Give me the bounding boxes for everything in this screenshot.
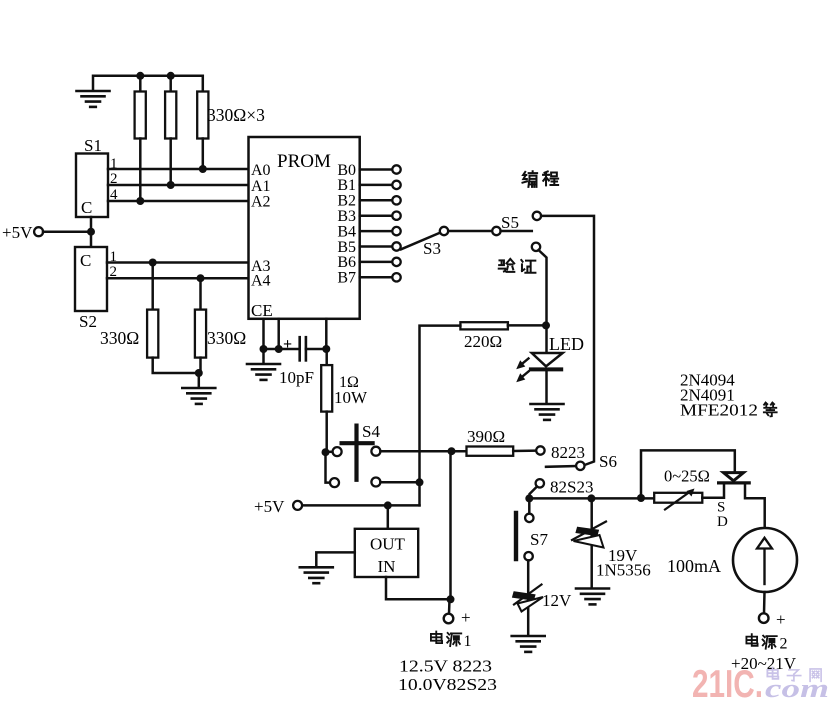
ground below 19V zener [576, 589, 609, 605]
svg-text:B7: B7 [337, 270, 356, 287]
terminal S7 top [525, 514, 533, 522]
junction 220 branch / S4 wire [416, 478, 424, 486]
wire R6 down to S4 [325, 412, 328, 453]
resistor R7 220 ohm [460, 322, 508, 329]
svg-text:com: com [765, 674, 829, 703]
svg-text:PROM: PROM [277, 151, 331, 172]
wire B1 stub [360, 184, 393, 187]
ground of regulator [300, 567, 333, 583]
wire S3 contact to S5 common [448, 230, 492, 233]
junction +5V node [87, 228, 95, 236]
label 19V [608, 546, 638, 565]
LED emission arrows [516, 359, 528, 383]
junction S4 input node [322, 448, 330, 456]
junction A4/R5 [197, 274, 205, 282]
terminal S4 bottom-left [330, 478, 339, 487]
label 330 ohm right [207, 328, 246, 348]
wire clamp bus [530, 497, 655, 500]
svg-text:A4: A4 [251, 273, 271, 290]
svg-text:LED: LED [549, 334, 584, 354]
svg-text:S4: S4 [362, 422, 380, 441]
resistor R5 330 ohm [195, 310, 206, 358]
transistor Q1 channel bar [719, 481, 750, 484]
terminal B3 [392, 212, 400, 220]
wire Q1 drain to meter [745, 483, 765, 529]
label S6 [599, 452, 617, 471]
terminal B5 [392, 242, 400, 250]
svg-text:+5V: +5V [2, 223, 33, 242]
ground below 12V zener [512, 636, 545, 652]
label 220 ohm [464, 332, 502, 351]
watermark com [765, 674, 829, 703]
junction S7 node [525, 494, 533, 502]
wire Q1 source stub [702, 483, 724, 498]
junction R3/A0 [199, 165, 207, 173]
wire top bus to pull-up resistors [93, 76, 203, 92]
pin label A0 [251, 162, 271, 179]
label yan-zheng (verify) [499, 259, 536, 273]
zener D3 12V [513, 585, 544, 612]
label C of S1 [81, 198, 92, 217]
wire 390 ohm to 8223 terminal [513, 449, 536, 452]
terminal B1 [392, 181, 400, 189]
label dian-yuan-2 (power supply 2) [746, 634, 787, 652]
wire R3 down to A0 [202, 139, 205, 170]
svg-text:IN: IN [378, 557, 396, 576]
label 1 ohm [339, 374, 359, 391]
label + of capacitor [283, 336, 292, 353]
svg-text:A0: A0 [251, 162, 271, 179]
wire S1 pin1 to A0 [108, 168, 249, 171]
pin label B7 [337, 270, 356, 287]
wire S4 bottom-right to 220 ohm branch [380, 481, 419, 484]
terminal S5 program contact [533, 212, 541, 220]
wire S4 input branch down to bottom-left contact [326, 452, 331, 482]
pin label B0 [337, 162, 356, 179]
wire S1 common to S2 common [90, 217, 93, 247]
svg-text:12.5V 8223: 12.5V 8223 [399, 657, 492, 676]
junction 390 ohm node [448, 447, 456, 455]
terminal B4 [392, 227, 400, 235]
pin label A3 [251, 258, 271, 275]
label bian-cheng (program) [522, 171, 558, 187]
svg-text:+5V: +5V [254, 497, 285, 516]
resistor R3 330 ohm (to A0) [197, 92, 208, 139]
pin label CE [251, 301, 273, 320]
label D of FET [717, 514, 728, 530]
terminal S6 common [576, 462, 584, 470]
wire R5 bottom to ground node [199, 358, 202, 373]
junction R4/R5 ground node [195, 369, 203, 377]
rheostat RP1 0~25 ohm body [654, 493, 702, 503]
resistor R2 330 ohm (to A1) [165, 92, 176, 139]
label 10pF [279, 368, 314, 387]
label 2N4091 [680, 386, 735, 405]
svg-text:330Ω: 330Ω [207, 328, 246, 348]
label 330 ohm left [100, 328, 139, 348]
label S1 [84, 136, 102, 155]
svg-text:82S23: 82S23 [550, 478, 593, 497]
pin label A2 [251, 194, 271, 211]
resistor R4 330 ohm [147, 310, 158, 358]
svg-text:D: D [717, 514, 728, 530]
terminal S4 top-right [371, 447, 380, 456]
label 10W [334, 388, 368, 407]
svg-text:220Ω: 220Ω [464, 332, 502, 351]
label S2 [79, 312, 97, 331]
svg-text:12V: 12V [542, 591, 572, 610]
wire S1 pin4 to A2 [108, 200, 249, 203]
ground below LED [531, 404, 564, 420]
label OUT [370, 535, 406, 554]
wire cap bus left [264, 348, 300, 351]
svg-text:S2: S2 [79, 312, 97, 331]
switch S3 lever from B5 [401, 233, 441, 250]
terminal S7 bottom [524, 552, 532, 560]
svg-text:MFE2012: MFE2012 [680, 401, 758, 420]
junction CE node [260, 345, 268, 353]
switch S2 box [75, 247, 107, 311]
wire meter to supply 2 [763, 592, 766, 614]
svg-text:S5: S5 [501, 213, 519, 232]
terminal 82S23 [536, 479, 544, 487]
svg-text:C: C [80, 251, 91, 270]
label 0~25 ohm [664, 467, 710, 486]
pin label B1 [337, 177, 356, 194]
wire 220 ohm left branch down to +5V [420, 326, 461, 506]
svg-text:S6: S6 [599, 452, 617, 471]
junction vcc pin node [322, 345, 330, 353]
svg-text:330Ω×3: 330Ω×3 [207, 105, 265, 125]
svg-text:21IC.: 21IC. [692, 663, 763, 706]
label LED [549, 334, 584, 354]
junction top bus at R2 [167, 72, 175, 80]
watermark dian-zi-wang (electronics net) [767, 668, 821, 682]
svg-text:A2: A2 [251, 194, 271, 211]
junction R2/A1 [167, 181, 175, 189]
label + of supply 1 [461, 608, 471, 627]
label 82S23 [550, 478, 593, 497]
switch S4 actuator cross [342, 426, 373, 480]
wire program contact to programming rail [541, 216, 594, 465]
svg-text:1N5356: 1N5356 [596, 561, 651, 580]
svg-text:2: 2 [780, 636, 788, 653]
wire 19V zener stem [590, 498, 593, 588]
label 10.0V82S23 [398, 675, 497, 694]
wire vcc node down to R6 [325, 349, 328, 365]
wire B6 stub [360, 261, 393, 264]
svg-text:+: + [283, 336, 292, 353]
label dian-yuan-1 (power supply 1) [431, 632, 472, 651]
svg-text:A1: A1 [251, 178, 271, 195]
wire S4 input to top-left contact [326, 451, 333, 454]
label 1N5356 [596, 561, 651, 580]
svg-text:8223: 8223 [551, 443, 585, 462]
switch S1 box [76, 154, 108, 218]
wire OUT node down to regulator [387, 505, 390, 528]
meter M1 100mA body [733, 528, 797, 592]
pin 2 of S1 [110, 171, 118, 187]
terminal S3 contact [440, 227, 448, 235]
pin 2 of S2 [110, 264, 118, 280]
label 2N4094 [680, 371, 735, 390]
wire S4 top-right to 390 ohm node [380, 450, 466, 453]
wire S7 bottom to zener 12V [527, 560, 530, 635]
wire cap bus right [306, 348, 326, 351]
wire ground stem 330 ohm pair [198, 373, 201, 388]
pin label A1 [251, 178, 271, 195]
pin 1 of S2 [110, 249, 118, 265]
terminal 8223 [536, 446, 544, 454]
junction LED node [542, 321, 550, 329]
svg-text:10pF: 10pF [279, 368, 314, 387]
junction top bus at R1 [136, 72, 144, 80]
wire S1 pin2 to A1 [108, 184, 249, 187]
terminal S4 bottom-right [371, 478, 380, 487]
terminal B7 [392, 273, 400, 281]
label +5V lower [254, 497, 285, 516]
label MFE2012 deng [680, 401, 777, 420]
label S7 [530, 530, 548, 549]
resistor R8 390 ohm [467, 447, 514, 456]
label S of FET [717, 500, 725, 516]
wire R4 bottom to ground node [153, 358, 199, 373]
wire S7 node down [528, 498, 531, 513]
label 8223 [551, 443, 585, 462]
terminal B6 [392, 258, 400, 266]
wire A3 down to R4 [151, 263, 154, 310]
wire PROM vcc pin stub [325, 319, 328, 349]
label S4 [362, 422, 380, 441]
svg-text:10.0V82S23: 10.0V82S23 [398, 675, 497, 694]
switch S5 lever [501, 230, 532, 233]
label +20~21V [731, 654, 797, 673]
label + of supply 2 [776, 610, 786, 629]
terminal power supply 2 [759, 613, 769, 623]
PROM U1 box [249, 137, 360, 319]
svg-text:100mA: 100mA [667, 556, 721, 576]
label C of S2 [80, 251, 91, 270]
watermark 21IC [692, 663, 763, 706]
resistor R1 330 ohm (to A2) [135, 92, 146, 139]
svg-text:10W: 10W [334, 388, 368, 407]
wire +5V terminal to node [43, 230, 91, 233]
wire CE stub down [262, 319, 265, 349]
pin label B5 [337, 239, 356, 256]
svg-text:CE: CE [251, 301, 273, 320]
junction 19V zener node [587, 494, 595, 502]
wire regulator ground branch [316, 552, 355, 566]
LED D1 [531, 325, 563, 403]
wire B0 stub [360, 168, 393, 171]
svg-text:+: + [776, 610, 786, 629]
wire B7 stub [360, 276, 393, 279]
wire +5V rail lower [302, 504, 420, 507]
junction supply 1 node [447, 595, 455, 603]
svg-text:0~25Ω: 0~25Ω [664, 467, 710, 486]
terminal S5 verify contact [532, 243, 540, 251]
wire ground stem below CE [262, 349, 265, 364]
terminal B0 [392, 165, 400, 173]
label 330 ohm x3 [207, 105, 265, 125]
wire PROM gnd pin stub [277, 319, 280, 349]
svg-text:+: + [461, 608, 471, 627]
junction R1/A2 [136, 197, 144, 205]
switch S6 lever [546, 465, 576, 468]
terminal S5 common [492, 227, 500, 235]
svg-text:390Ω: 390Ω [467, 427, 505, 446]
pin label A4 [251, 273, 271, 290]
wire B2 stub [360, 199, 393, 202]
label 390 ohm [467, 427, 505, 446]
wire gate bypass loop [641, 450, 735, 498]
junction gnd pin node [275, 345, 283, 353]
junction A3/R4 [149, 259, 157, 267]
wire B3 stub [360, 214, 393, 217]
wire A4 down to R5 [199, 278, 202, 309]
label 12.5V 8223 [399, 657, 492, 676]
wire 82S23 terminal to clamp bus [530, 487, 538, 499]
ground top-left [77, 91, 110, 107]
pin label B4 [337, 223, 356, 240]
pin 4 of S1 [110, 187, 118, 203]
svg-text:S1: S1 [84, 136, 102, 155]
terminal B2 [392, 196, 400, 204]
pin 1 of S1 [110, 156, 118, 172]
label 12V [542, 591, 572, 610]
wire regulator IN to supply node [386, 577, 451, 599]
junction bypass node [637, 494, 645, 502]
pin label B2 [337, 193, 356, 210]
switch S7 button bar [514, 513, 518, 559]
svg-text:S3: S3 [423, 239, 441, 258]
capacitor C1 10pF plates [300, 337, 306, 360]
transistor Q1 FET gate arrow [724, 473, 744, 481]
label IN [378, 557, 396, 576]
zener D2 19V 1N5356 [572, 522, 606, 548]
label PROM [277, 151, 331, 172]
terminal power supply 1 [444, 614, 454, 624]
label S3 [423, 239, 441, 258]
resistor R6 1 ohm 10W [321, 365, 332, 412]
rheostat arrow [665, 489, 695, 510]
svg-text:C: C [81, 198, 92, 217]
pin label B6 [337, 254, 356, 271]
regulator U2 box [355, 529, 418, 577]
label S5 [501, 213, 519, 232]
wire S2 pin1 to A3 [107, 261, 249, 264]
svg-text:1: 1 [464, 633, 472, 650]
wire S2 pin2 to A4 [107, 277, 249, 280]
wire B4 stub [360, 230, 393, 233]
svg-text:S7: S7 [530, 530, 548, 549]
ground below 330 ohm pair [182, 388, 215, 404]
terminal +5V left [34, 227, 43, 236]
wire R2 down to A1 [169, 139, 172, 186]
wire supply 1 stem [448, 599, 451, 614]
wire verify contact down to LED node [539, 250, 547, 325]
wire 220 ohm right to LED node [508, 324, 547, 327]
ground below PROM [247, 364, 280, 380]
pin label B3 [337, 208, 356, 225]
svg-text:330Ω: 330Ω [100, 328, 139, 348]
label +5V left [2, 223, 33, 242]
wire R1 down to A2 [139, 139, 142, 202]
wire 390 node down to supply 1 [449, 451, 452, 599]
terminal +5V lower [293, 501, 302, 510]
terminal S4 top-left [333, 447, 342, 456]
wire B5 stub [360, 245, 393, 248]
svg-text:OUT: OUT [370, 535, 406, 554]
label 100mA [667, 556, 721, 576]
junction regulator OUT node [384, 501, 392, 509]
meter needle arrow [757, 538, 772, 584]
